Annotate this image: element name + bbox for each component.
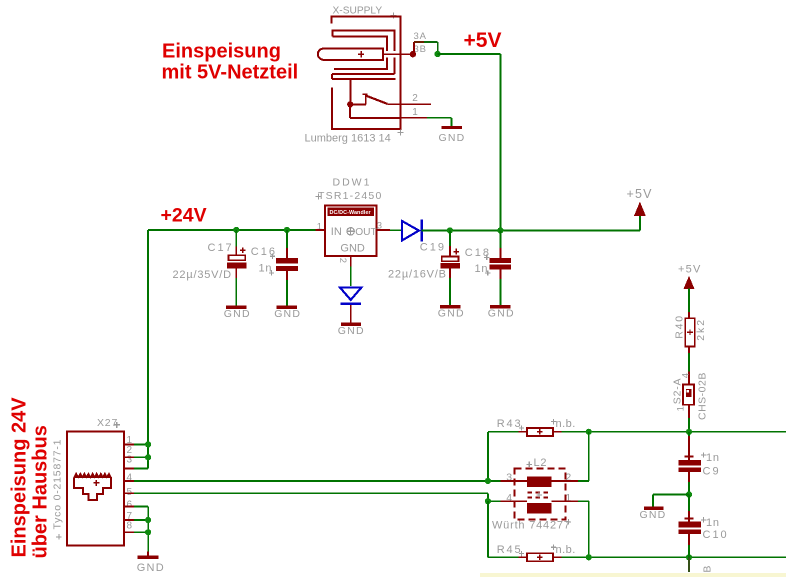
junction L2 pin4 xyxy=(485,498,491,504)
resistor R40 xyxy=(685,318,694,346)
dc/dc converter DDW1 box xyxy=(325,205,377,256)
pin 1 wire to GND xyxy=(401,118,451,126)
ground GND (C18) xyxy=(488,305,515,320)
svg-text:DC/DC-Wandler: DC/DC-Wandler xyxy=(330,210,372,216)
value n.b. (R43) xyxy=(551,418,576,430)
pin 4 lead (L2) xyxy=(500,500,527,502)
svg-text:+5V: +5V xyxy=(678,263,701,275)
pin labels 3A 3B xyxy=(414,31,427,55)
svg-text:TSR1-2450: TSR1-2450 xyxy=(318,190,383,202)
pin 3A/3B tie loop xyxy=(414,42,438,54)
value 1n (C16) xyxy=(259,263,275,276)
pin 6 lead (X27) xyxy=(124,505,134,507)
resistor R45 xyxy=(518,553,561,561)
connector X-SUPPLY jack housing outline xyxy=(331,17,402,130)
svg-text:n.b.: n.b. xyxy=(556,418,576,430)
wire S2 to net xyxy=(688,405,690,432)
ground GND (C9/C10 mid) xyxy=(640,507,667,521)
svg-text:mit 5V-Netzteil: mit 5V-Netzteil xyxy=(162,62,299,84)
svg-text:X-SUPPLY: X-SUPPLY xyxy=(333,5,383,16)
svg-text:OUT: OUT xyxy=(355,227,377,238)
svg-text:2: 2 xyxy=(337,258,348,264)
junction switch common xyxy=(347,101,353,107)
label C16 xyxy=(251,246,277,259)
caption Einspeisung 24V ueber Hausbus (rotated) xyxy=(9,397,52,559)
pin 3 (OUT) xyxy=(377,221,390,232)
value 1n (C10) xyxy=(701,517,720,529)
junction pin2 xyxy=(145,454,151,460)
caption Einspeisung mit 5V-Netzteil xyxy=(162,41,299,84)
value label TSR1-2450 xyxy=(316,190,383,202)
junction L2 pin3 xyxy=(485,478,491,484)
supply +5V arrow (right column) xyxy=(678,263,701,288)
svg-text:8: 8 xyxy=(127,520,133,531)
lead to ground (X27) xyxy=(147,552,149,556)
svg-text:22µ/16V/B: 22µ/16V/B xyxy=(388,269,447,281)
connector X-SUPPLY name label xyxy=(333,5,397,18)
svg-text:B: B xyxy=(702,565,714,573)
wire X27 pin8 xyxy=(134,531,148,533)
svg-text:CHS-02B: CHS-02B xyxy=(696,372,708,420)
pin 4 lead (X27) xyxy=(124,480,134,482)
svg-text:6: 6 xyxy=(127,500,133,511)
supply +5V arrow (mid) xyxy=(627,187,653,216)
junction C10/net B xyxy=(686,554,692,560)
pin 5 lead (X27) xyxy=(124,492,134,494)
wire R45 net to right edge xyxy=(561,556,786,558)
capacitor C9 xyxy=(679,432,702,495)
svg-text:3: 3 xyxy=(127,455,133,466)
junction pin1 xyxy=(145,441,151,447)
diode D1 (series, blue) xyxy=(402,220,422,242)
svg-text:22µ/35V/D: 22µ/35V/D xyxy=(173,269,232,281)
svg-text:+5V: +5V xyxy=(627,187,653,201)
svg-text:4: 4 xyxy=(681,372,692,378)
X-SUPPLY barrel contact xyxy=(318,48,383,60)
svg-text:über Hausbus: über Hausbus xyxy=(30,425,52,558)
junction C16 tap xyxy=(284,227,290,233)
value 1n (C9) xyxy=(701,452,720,464)
wire +5V output net xyxy=(422,216,640,231)
svg-text:2: 2 xyxy=(412,93,418,104)
svg-text:1: 1 xyxy=(412,107,418,118)
svg-text:C10: C10 xyxy=(703,529,729,541)
junction C19 tap xyxy=(447,227,453,233)
svg-text:GND: GND xyxy=(439,132,466,144)
svg-text:+24V: +24V xyxy=(161,205,207,227)
svg-text:GND: GND xyxy=(340,242,365,254)
svg-text:Lumberg 1613 14: Lumberg 1613 14 xyxy=(305,133,391,145)
frame line (faint yellow) xyxy=(480,573,786,577)
wire R40 to S2 xyxy=(688,346,690,384)
wire DC/DC pin2 to diode xyxy=(350,266,352,286)
capacitor C17 xyxy=(227,230,246,306)
wire diode to GND xyxy=(350,305,352,323)
wire mid to GND xyxy=(653,495,689,507)
svg-text:Tyco 0-215877-1: Tyco 0-215877-1 xyxy=(52,439,64,530)
wire X27 pin1 to +24V vertical xyxy=(134,443,148,445)
connector X27 name label xyxy=(97,417,120,429)
inductor L2 windings xyxy=(527,476,552,513)
ground GND (C17) xyxy=(224,306,251,320)
junction +5V tap (green) xyxy=(434,51,440,57)
svg-text:Einspeisung 24V: Einspeisung 24V xyxy=(9,397,31,558)
svg-text:2k2: 2k2 xyxy=(695,318,707,341)
junction pin7 xyxy=(145,517,151,523)
svg-text:X27: X27 xyxy=(97,417,118,429)
svg-text:1: 1 xyxy=(675,405,686,411)
pin 7 lead (X27) xyxy=(124,519,134,521)
wire stub net B xyxy=(688,557,690,572)
inductor L2 dashed box xyxy=(515,469,566,520)
svg-text:R45: R45 xyxy=(497,544,523,556)
label Lumberg 1613 14 xyxy=(305,130,404,145)
svg-text:C19: C19 xyxy=(420,242,446,254)
svg-text:4: 4 xyxy=(127,473,133,484)
ground GND (C19) xyxy=(438,305,465,320)
svg-text:DDW1: DDW1 xyxy=(333,177,372,189)
svg-text:R43: R43 xyxy=(497,418,523,430)
svg-text:1n: 1n xyxy=(706,452,720,464)
svg-text:IN: IN xyxy=(331,226,342,238)
capacitor C16 xyxy=(276,230,298,306)
svg-text:GND: GND xyxy=(338,325,365,337)
ground GND (C16) xyxy=(274,306,301,320)
svg-text:3A: 3A xyxy=(414,31,427,42)
ground GND (X27) xyxy=(137,555,165,574)
label R43 xyxy=(497,418,524,430)
svg-text:Würth 744277: Würth 744277 xyxy=(492,520,571,532)
pin 2 lead (L2) xyxy=(552,432,589,481)
pin 2 lead (X27) xyxy=(124,456,134,458)
wire R43 left xyxy=(488,432,519,481)
pin 3 lead (L2) xyxy=(500,480,527,482)
wire X27 pin2 xyxy=(134,456,148,458)
junction C17 tap xyxy=(233,227,239,233)
svg-text:GND: GND xyxy=(488,307,515,319)
label L2 xyxy=(527,457,548,469)
label R45 xyxy=(497,544,524,556)
svg-text:GND: GND xyxy=(274,308,301,320)
svg-text:n.b.: n.b. xyxy=(556,544,576,556)
wire X27 pin3 corner xyxy=(134,467,148,469)
wire +5V to R40 xyxy=(688,288,690,318)
pin 1 (IN) xyxy=(315,222,325,233)
svg-text:GND: GND xyxy=(438,307,465,319)
svg-text:1n: 1n xyxy=(706,517,720,529)
label C18 xyxy=(465,247,491,260)
value Tyco 0-215877-1 (rotated) xyxy=(52,439,64,540)
wire X27 pin6 to GND xyxy=(134,506,148,551)
svg-text:+5V: +5V xyxy=(464,29,502,52)
X-SUPPLY internal switch xyxy=(350,79,431,118)
value n.b. (R45) xyxy=(551,544,576,556)
capacitor C18 xyxy=(490,230,512,305)
junction S2/C9 xyxy=(686,429,692,435)
pin 3 lead (X27) xyxy=(124,467,134,469)
junction C18 tap xyxy=(497,227,503,233)
pin 1 lead (L2) xyxy=(552,501,589,557)
capacitor C19 xyxy=(441,230,460,305)
resistor R43 xyxy=(518,428,561,436)
connector X27 RJ45 pictogram xyxy=(74,473,111,500)
switch S2-A xyxy=(683,384,694,404)
svg-text:C9: C9 xyxy=(703,466,721,478)
pin 2 (GND bottom) xyxy=(337,256,351,266)
junction R45/L2 pin1 xyxy=(586,554,592,560)
svg-text:Einspeisung: Einspeisung xyxy=(162,41,281,63)
svg-text:1: 1 xyxy=(317,222,323,233)
wire X27 pin5 to L2 pin4 xyxy=(134,493,500,501)
wire R45 left xyxy=(488,501,519,557)
junction pin8 xyxy=(145,529,151,535)
svg-text:GND: GND xyxy=(137,562,165,574)
wire +5V from jack xyxy=(438,54,501,230)
wire X27 pin4 to L2 pin3 xyxy=(134,480,500,482)
wire R43 net to right edge xyxy=(561,431,786,433)
wire +24V net xyxy=(148,230,316,469)
value Wuerth 744277 xyxy=(492,519,571,532)
ground GND (Lumberg pin1) xyxy=(439,126,466,144)
value 1n (C18) xyxy=(475,263,491,276)
wire X27 pin7 xyxy=(134,519,148,521)
ground GND (diode) xyxy=(338,323,365,337)
svg-text:C17: C17 xyxy=(208,242,234,254)
diode D (reverse protection, below DDW1) xyxy=(340,287,362,303)
capacitor C10 xyxy=(679,495,702,558)
svg-text:S2-A: S2-A xyxy=(671,378,683,405)
X-SUPPLY barrel pin wire xyxy=(383,53,413,55)
svg-text:GND: GND xyxy=(640,509,667,521)
pin 1 lead (X27) xyxy=(124,443,134,445)
svg-text:L2: L2 xyxy=(534,457,548,469)
junction R43/L2 pin2 xyxy=(586,429,592,435)
svg-text:R40: R40 xyxy=(674,314,686,339)
wire OUT to diode D1 xyxy=(390,229,401,231)
pin 8 lead (X27) xyxy=(124,531,134,533)
junction C9/C10 mid xyxy=(686,491,692,497)
connector X27 box xyxy=(67,432,124,546)
svg-text:GND: GND xyxy=(224,308,251,320)
junction pin 3B (red) xyxy=(410,51,416,57)
